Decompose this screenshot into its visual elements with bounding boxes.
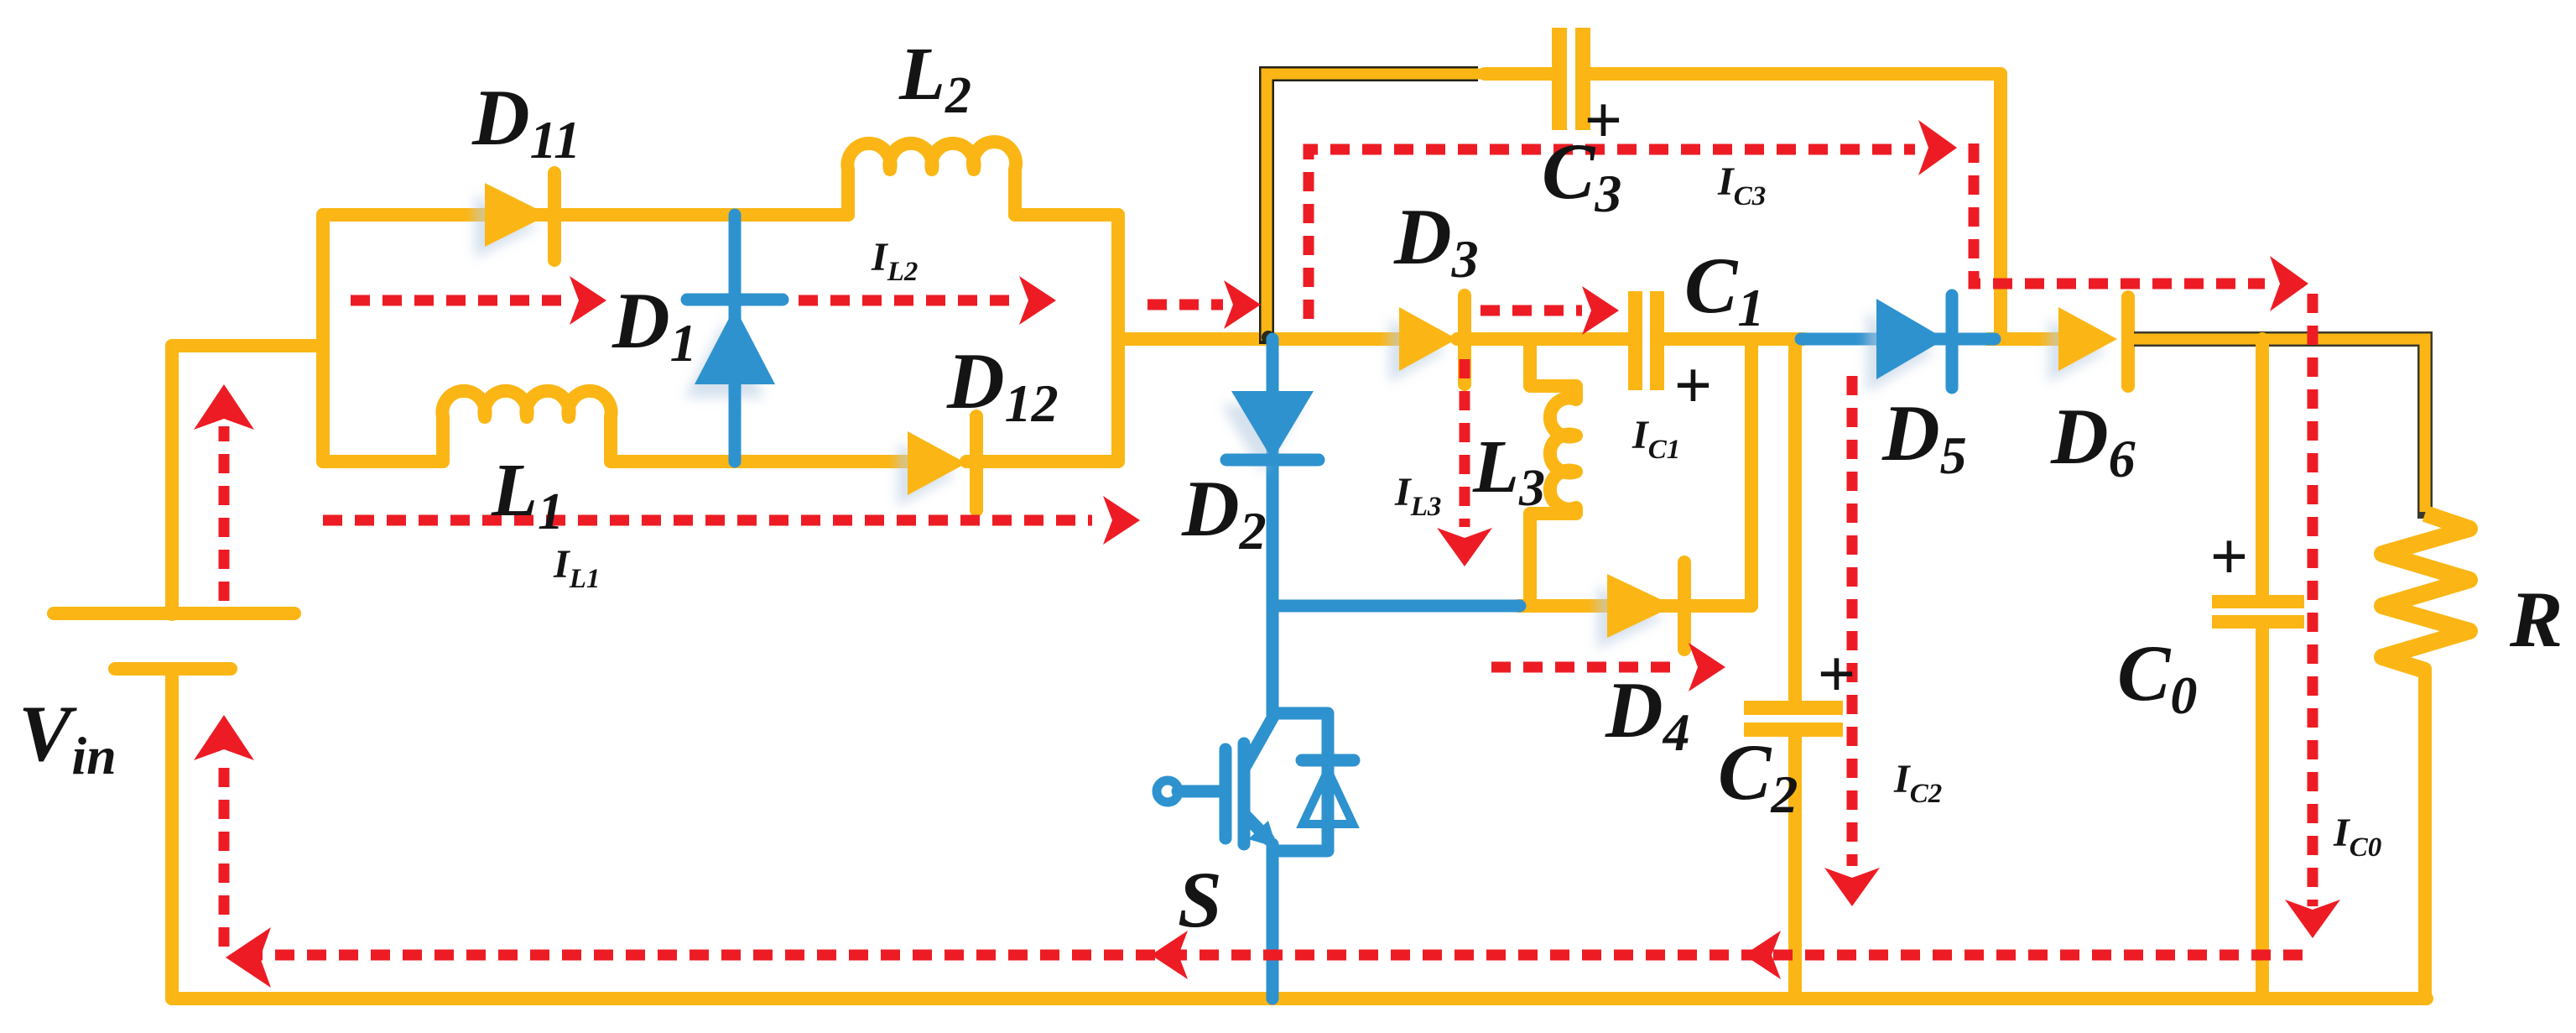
svg-text:L2: L2 (898, 33, 971, 124)
svg-text:IC3: IC3 (1717, 159, 1766, 211)
current arrow IC2 (1824, 376, 1880, 906)
wire C3 top right (1590, 67, 2001, 81)
svg-text:+: + (1817, 638, 1855, 712)
wire C2 branch top (1788, 339, 1802, 703)
svg-text:S: S (1178, 855, 1222, 944)
wire D4 riser (1745, 339, 1758, 606)
svg-text:C2: C2 (1718, 728, 1798, 824)
inductor L3 (1530, 339, 1576, 606)
wire left block left edge (316, 215, 330, 462)
inductor L2 (847, 142, 1016, 215)
wire main rail D3 to C1 (1457, 332, 1628, 346)
wire D4 branch (1518, 599, 1751, 613)
current arrow IL3 (1437, 359, 1492, 566)
diode D11 (475, 173, 554, 260)
diode D2 (1221, 339, 1319, 606)
svg-text:L3: L3 (1472, 425, 1545, 517)
svg-text:IC0: IC0 (2333, 811, 2381, 863)
capacitor C3 (1552, 28, 1590, 130)
wire rail D5 to D6 yellow (1988, 332, 2058, 346)
svg-text:D12: D12 (946, 337, 1059, 433)
svg-text:C1: C1 (1684, 241, 1764, 337)
svg-text:L1: L1 (491, 449, 564, 540)
wire C0 branch top (2256, 339, 2269, 597)
diode D3 (1389, 295, 1465, 384)
svg-text:+: + (2209, 520, 2248, 594)
transistor S (IGBT) (1157, 606, 1354, 999)
inductor L1 (442, 391, 611, 462)
current arrow D3 to C1 (1481, 286, 1619, 335)
wire blue branch to D4 (1272, 600, 1520, 613)
svg-text:IL3: IL3 (1394, 470, 1441, 522)
wire C2 branch bottom (1788, 737, 1802, 999)
svg-text:+: + (1673, 349, 1712, 423)
wire C3 right drop (1994, 74, 2007, 339)
wire main rail left (1118, 332, 1399, 346)
wire C0 branch bottom (2256, 629, 2269, 999)
diode D6 (2048, 297, 2128, 386)
current loop IC3 (1309, 120, 2340, 938)
wire input node (172, 339, 323, 352)
wire bottom branch right (966, 455, 1118, 468)
current return path bottom (226, 927, 2303, 988)
wire bottom branch mid (611, 455, 908, 468)
current arrow D4 (1491, 643, 1725, 691)
svg-text:D4: D4 (1605, 665, 1690, 762)
diode D5 (1801, 295, 1995, 393)
resistor R (2382, 514, 2469, 670)
current arrow Vin lower (194, 715, 254, 947)
wire C3 top left (1485, 67, 1553, 81)
wire output rail outlined (2131, 339, 2425, 519)
capacitor C1 (1628, 291, 1664, 390)
current arrow IL2 mid (799, 276, 1056, 325)
svg-text:C0: C0 (2117, 629, 2197, 725)
current arrow IL2 upper left (351, 276, 606, 325)
wire main rail C1 to node (1664, 332, 1803, 346)
wire bottom rail (172, 992, 2427, 1005)
svg-text:IC2: IC2 (1893, 757, 1942, 809)
svg-text:D3: D3 (1393, 192, 1479, 289)
diode D1 (684, 215, 783, 462)
svg-text:Vin: Vin (18, 689, 117, 785)
wire top branch right (1015, 208, 1118, 222)
current arrow IL1 (323, 496, 1140, 545)
svg-text:D5: D5 (1881, 389, 1967, 485)
capacitor C0 (2212, 595, 2304, 629)
diode D4 (1597, 562, 1684, 650)
current arrow Vin upper (194, 384, 254, 601)
wire top branch left (323, 208, 848, 222)
svg-text:D11: D11 (471, 73, 580, 170)
current arrow into rail node (1147, 280, 1261, 329)
svg-text:IL1: IL1 (553, 542, 600, 594)
diode D12 (898, 416, 976, 510)
svg-text:R: R (2509, 575, 2563, 664)
svg-text:IL2: IL2 (871, 235, 918, 287)
wire left block right edge (1111, 215, 1125, 462)
wire bottom branch left (323, 455, 443, 468)
battery Vin (54, 346, 294, 999)
svg-text:D2: D2 (1181, 464, 1267, 561)
svg-text:D6: D6 (2050, 392, 2136, 488)
capacitor C2 (1744, 701, 1843, 737)
wire R bottom (2418, 669, 2432, 999)
svg-text:D1: D1 (611, 276, 697, 373)
wire C3 branch outlined riser (1262, 74, 1493, 344)
wire top branch mid (549, 208, 848, 222)
